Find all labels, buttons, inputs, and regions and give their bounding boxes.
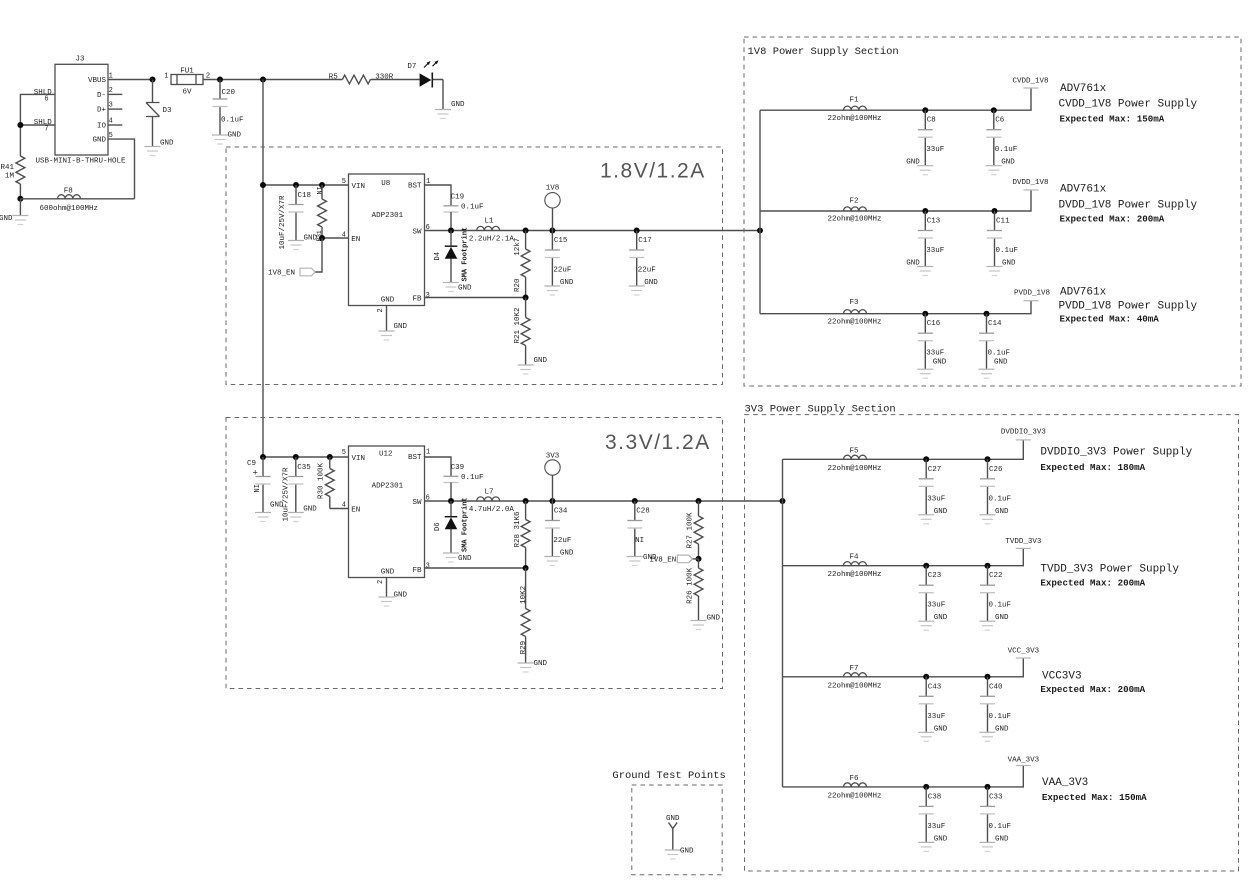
capacitor C19 <box>444 193 484 230</box>
svg-text:6V: 6V <box>182 89 192 97</box>
svg-text:3V3 Power Supply Section: 3V3 Power Supply Section <box>745 404 896 416</box>
svg-text:Expected Max: 200mA: Expected Max: 200mA <box>1040 684 1145 695</box>
svg-text:0.1uF: 0.1uF <box>461 204 484 212</box>
capacitor C20 <box>212 80 244 145</box>
wire VBUS pin1 <box>108 79 153 81</box>
svg-text:GND: GND <box>228 132 242 140</box>
wire main vertical <box>262 80 264 458</box>
svg-text:PVDD_1V8 Power Supply: PVDD_1V8 Power Supply <box>1059 300 1198 312</box>
svg-text:IO: IO <box>97 123 107 131</box>
wire 1V8 bus <box>759 110 761 314</box>
svg-text:GND: GND <box>995 835 1009 843</box>
svg-text:1.8V/1.2A: 1.8V/1.2A <box>600 160 706 183</box>
svg-text:GND: GND <box>451 101 465 109</box>
svg-text:4.7uH/2.0A: 4.7uH/2.0A <box>469 506 515 514</box>
net TVDD_3V3 <box>1005 538 1042 549</box>
svg-text:GND: GND <box>995 508 1009 516</box>
svg-text:GND: GND <box>0 215 13 223</box>
svg-text:GND: GND <box>394 323 408 331</box>
inductor F5 <box>827 447 881 473</box>
svg-text:3: 3 <box>426 292 430 300</box>
svg-text:GND: GND <box>534 660 548 668</box>
wire SW rail U12 <box>425 500 783 502</box>
svg-text:NI: NI <box>254 484 262 492</box>
wire SW rail <box>425 230 761 232</box>
capacitor C23 <box>918 566 948 631</box>
svg-text:10uF/25V/X7R: 10uF/25V/X7R <box>282 467 290 522</box>
node C22 <box>985 563 991 569</box>
node F8 left <box>17 196 23 202</box>
svg-text:L1: L1 <box>484 218 494 226</box>
node FB U12 <box>523 565 529 571</box>
node main vertical <box>260 77 266 83</box>
net 1V8 bubble <box>545 185 560 231</box>
svg-text:GND: GND <box>995 725 1009 733</box>
svg-text:33uF: 33uF <box>926 146 944 154</box>
svg-text:330R: 330R <box>375 74 394 82</box>
resistor R28 <box>514 501 530 568</box>
svg-text:GND: GND <box>458 285 472 293</box>
svg-text:2: 2 <box>377 580 385 584</box>
svg-text:10uF/25V/X7R: 10uF/25V/X7R <box>279 195 287 250</box>
svg-text:BST: BST <box>408 183 422 191</box>
svg-text:C9: C9 <box>247 460 256 468</box>
svg-text:33uF: 33uF <box>927 713 945 721</box>
svg-text:C26: C26 <box>989 466 1003 474</box>
svg-text:DVDDIO_3V3 Power Supply: DVDDIO_3V3 Power Supply <box>1040 447 1192 459</box>
svg-text:FU1: FU1 <box>180 68 194 76</box>
node bus entry 3V3 <box>780 498 786 504</box>
svg-text:CVDD_1V8: CVDD_1V8 <box>1012 78 1048 86</box>
svg-text:GND: GND <box>1002 260 1016 268</box>
inductor F8 <box>39 188 98 214</box>
svg-text:GND: GND <box>394 592 408 600</box>
op-amp U8 (regulator ADP2301) <box>342 174 430 313</box>
svg-text:ADV761x: ADV761x <box>1060 287 1107 299</box>
resistor R41 <box>0 156 24 184</box>
svg-text:Expected Max: 200mA: Expected Max: 200mA <box>1060 214 1165 225</box>
svg-text:C18: C18 <box>298 192 312 200</box>
node EN <box>319 235 325 241</box>
svg-text:ADP2301: ADP2301 <box>372 212 404 220</box>
svg-text:22ohm@100MHz: 22ohm@100MHz <box>827 216 881 224</box>
inductor F4 <box>827 554 881 580</box>
svg-text:22ohm@100MHz: 22ohm@100MHz <box>827 571 881 579</box>
wire VIN rail U8 <box>263 184 349 186</box>
node R28 <box>523 498 529 504</box>
node VBUS rail D3 <box>150 77 156 83</box>
wire row PVDD <box>760 301 1031 314</box>
svg-text:GND: GND <box>680 848 694 856</box>
svg-text:2.2uH/2.1A: 2.2uH/2.1A <box>469 235 515 243</box>
net DVDDIO_3V3 <box>1001 429 1047 440</box>
wire VIN rail U12 <box>263 456 349 458</box>
svg-text:0.1uF: 0.1uF <box>989 713 1012 721</box>
svg-text:ADV761x: ADV761x <box>1060 83 1107 95</box>
node SW C19 <box>448 228 454 234</box>
svg-text:C8: C8 <box>927 117 936 125</box>
node R27 <box>696 498 702 504</box>
svg-text:22uF: 22uF <box>638 267 656 275</box>
op-amp U12 (regulator ADP2301) <box>342 446 430 584</box>
capacitor C34 <box>544 501 574 566</box>
svg-text:R41: R41 <box>0 164 14 172</box>
node R30 <box>327 454 333 460</box>
test point GND <box>666 815 680 850</box>
svg-text:C13: C13 <box>927 218 941 226</box>
svg-text:C28: C28 <box>636 508 650 516</box>
svg-text:7: 7 <box>44 125 48 133</box>
net VAA_3V3 <box>1008 757 1040 766</box>
svg-text:U12: U12 <box>379 451 393 459</box>
wire row VAA <box>783 766 1024 787</box>
3.3V section box <box>226 418 723 689</box>
node R31 <box>319 182 325 188</box>
svg-text:C15: C15 <box>554 237 568 245</box>
svg-text:TVDD_3V3 Power Supply: TVDD_3V3 Power Supply <box>1040 564 1179 576</box>
svg-text:C22: C22 <box>989 572 1003 580</box>
node C16 <box>922 311 928 317</box>
svg-text:CVDD_1V8 Power Supply: CVDD_1V8 Power Supply <box>1059 99 1198 111</box>
ground left <box>0 199 28 225</box>
svg-text:0.1uF: 0.1uF <box>989 823 1012 831</box>
node C20 <box>217 77 223 83</box>
node FB <box>523 295 529 301</box>
wire LED to ground <box>442 80 444 110</box>
capacitor C17 <box>629 231 659 296</box>
svg-text:USB-MINI-B-THRU-HOLE: USB-MINI-B-THRU-HOLE <box>35 158 126 166</box>
svg-text:GND: GND <box>934 725 948 733</box>
svg-text:GND: GND <box>707 615 721 623</box>
svg-text:SHLD: SHLD <box>34 89 53 97</box>
svg-text:12k7: 12k7 <box>514 238 522 256</box>
inductor F3 <box>827 299 881 326</box>
svg-text:3: 3 <box>426 562 430 570</box>
svg-text:GND: GND <box>906 260 920 268</box>
svg-text:0.1uF: 0.1uF <box>988 350 1011 358</box>
svg-text:R20: R20 <box>514 278 522 292</box>
resistor R29 <box>520 568 530 663</box>
svg-text:C6: C6 <box>995 117 1005 125</box>
svg-text:GND: GND <box>381 568 395 576</box>
text DVDDIO block <box>1040 447 1192 474</box>
node C13 <box>922 208 928 214</box>
svg-text:R29: R29 <box>520 641 528 655</box>
wire row CVDD <box>760 88 1031 110</box>
svg-text:VAA_3V3: VAA_3V3 <box>1042 777 1088 789</box>
wire IO stub <box>108 124 122 126</box>
svg-text:22uF: 22uF <box>553 267 571 275</box>
svg-text:GND: GND <box>303 506 317 514</box>
node bus entry 1V8 <box>757 228 763 234</box>
svg-text:NI: NI <box>635 537 644 545</box>
svg-text:GND: GND <box>534 357 548 365</box>
svg-text:DVDD_1V8 Power Supply: DVDD_1V8 Power Supply <box>1059 200 1198 212</box>
wire SHLD7 <box>20 124 55 126</box>
node C14 <box>984 311 990 317</box>
ground U12 <box>379 578 408 607</box>
svg-text:22ohm@100MHz: 22ohm@100MHz <box>827 465 881 473</box>
svg-text:DVDD_1V8: DVDD_1V8 <box>1012 179 1048 187</box>
svg-text:D-: D- <box>97 92 106 100</box>
wire EN U12 <box>330 508 349 510</box>
capacitor C8 <box>906 110 944 175</box>
svg-text:C27: C27 <box>928 466 942 474</box>
svg-text:3V3: 3V3 <box>546 453 560 461</box>
ground D7 <box>435 101 465 119</box>
wire D- stub <box>108 93 122 95</box>
capacitor C28 NI <box>627 501 657 566</box>
svg-text:GND: GND <box>933 359 947 367</box>
net DVDD_1V8 <box>1012 179 1048 190</box>
svg-text:EN: EN <box>351 236 360 244</box>
capacitor C27 <box>918 459 948 524</box>
svg-text:Expected Max: 200mA: Expected Max: 200mA <box>1040 578 1145 589</box>
LED D7 <box>407 60 438 87</box>
diode D4 <box>434 227 472 293</box>
svg-text:1V8_EN: 1V8_EN <box>268 270 295 278</box>
svg-text:10K2: 10K2 <box>520 586 528 604</box>
svg-text:C11: C11 <box>996 218 1010 226</box>
text DVDD block <box>1059 184 1198 225</box>
wire BST <box>425 185 452 206</box>
svg-text:ADV761x: ADV761x <box>1060 184 1107 196</box>
svg-text:Ground Test Points: Ground Test Points <box>612 770 725 782</box>
capacitor C16 <box>917 314 947 379</box>
svg-text:22ohm@100MHz: 22ohm@100MHz <box>827 318 881 326</box>
wire FB U12 <box>425 567 526 569</box>
resistor R30 <box>318 457 335 509</box>
svg-text:4: 4 <box>342 502 346 510</box>
net CVDD_1V8 <box>1012 78 1048 89</box>
svg-text:C17: C17 <box>638 237 652 245</box>
svg-text:0.1uF: 0.1uF <box>996 247 1019 255</box>
node C18 <box>293 182 299 188</box>
svg-text:GND: GND <box>934 508 948 516</box>
svg-text:D6: D6 <box>434 523 442 531</box>
diode D3 <box>146 80 172 147</box>
resistor R31 NI <box>316 185 326 242</box>
wire row TVDD <box>783 548 1024 565</box>
svg-text:VIN: VIN <box>352 183 366 191</box>
svg-text:C38: C38 <box>928 793 942 801</box>
svg-text:1V8 Power Supply Section: 1V8 Power Supply Section <box>748 46 899 58</box>
node C6 <box>991 107 997 113</box>
node C28 <box>632 498 638 504</box>
wire row DVDD <box>760 190 1031 211</box>
node divider 1V8_EN <box>696 556 702 562</box>
svg-text:SHLD: SHLD <box>34 119 53 127</box>
node C43 <box>923 674 929 680</box>
svg-text:F6: F6 <box>849 775 859 783</box>
svg-text:SW: SW <box>412 229 422 237</box>
svg-text:C23: C23 <box>928 572 942 580</box>
svg-text:C39: C39 <box>451 464 465 472</box>
svg-text:DVDDIO_3V3: DVDDIO_3V3 <box>1001 429 1047 437</box>
svg-text:0.1uF: 0.1uF <box>461 474 484 482</box>
capacitor C14 <box>979 314 1011 379</box>
svg-text:F4: F4 <box>849 554 859 562</box>
resistor R20 <box>514 231 530 298</box>
svg-text:D4: D4 <box>434 252 442 260</box>
svg-text:33uF: 33uF <box>927 823 945 831</box>
svg-text:VIN: VIN <box>352 455 366 463</box>
svg-text:F8: F8 <box>64 188 73 196</box>
wire EN <box>322 237 349 239</box>
capacitor C6 <box>986 110 1018 175</box>
wire R41 to F8 rail <box>19 184 21 199</box>
capacitor C13 <box>906 211 944 276</box>
svg-text:D3: D3 <box>163 107 173 115</box>
capacitor C35 <box>282 457 317 522</box>
node C8 <box>922 107 928 113</box>
svg-text:R5: R5 <box>329 74 339 82</box>
svg-text:22ohm@100MHz: 22ohm@100MHz <box>827 682 881 690</box>
svg-text:33uF: 33uF <box>926 247 944 255</box>
svg-text:FB: FB <box>412 567 422 575</box>
capacitor C43 <box>918 677 948 742</box>
wire SHLD6 <box>20 94 55 156</box>
resistor R5 <box>329 74 394 84</box>
node 3V3 output <box>549 498 555 504</box>
text CVDD block <box>1059 83 1198 125</box>
svg-text:1V8: 1V8 <box>546 185 560 193</box>
resistor R21 <box>514 298 530 366</box>
svg-text:+: + <box>253 469 258 479</box>
svg-text:C43: C43 <box>928 683 942 691</box>
node SHLD <box>17 122 23 128</box>
svg-text:PVDD_1V8: PVDD_1V8 <box>1014 289 1050 297</box>
text VCC block <box>1040 670 1145 695</box>
svg-text:VBUS: VBUS <box>88 77 107 85</box>
svg-text:Expected Max: 180mA: Expected Max: 180mA <box>1040 462 1145 473</box>
svg-text:22ohm@100MHz: 22ohm@100MHz <box>827 792 881 800</box>
svg-text:J3: J3 <box>75 56 85 64</box>
svg-text:33uF: 33uF <box>927 495 945 503</box>
svg-text:33uF: 33uF <box>926 350 944 358</box>
wire F8 rail <box>20 198 134 200</box>
ground test points box <box>632 785 722 875</box>
node R20 <box>523 228 529 234</box>
wire row VCC <box>783 658 1024 677</box>
svg-text:F5: F5 <box>849 447 859 455</box>
wire D+ stub <box>108 108 122 110</box>
svg-text:F3: F3 <box>849 299 859 307</box>
inductor L1 <box>469 218 515 244</box>
svg-text:600ohm@100MHz: 600ohm@100MHz <box>39 205 98 213</box>
inductor F7 <box>827 665 881 691</box>
node C26 <box>985 456 991 462</box>
svg-text:0.1uF: 0.1uF <box>989 602 1012 610</box>
node C35 <box>293 454 299 460</box>
capacitor C33 <box>980 787 1012 852</box>
node C23 <box>923 563 929 569</box>
wire main rail <box>203 79 443 81</box>
node VIN vertical <box>260 182 266 188</box>
flag 1V8_EN output <box>649 555 698 564</box>
net 3V3 bubble <box>545 453 560 502</box>
flag 1V8_EN input <box>268 268 315 278</box>
node C17 <box>634 228 640 234</box>
svg-text:GND: GND <box>934 614 948 622</box>
svg-text:R28 31K6: R28 31K6 <box>514 511 522 548</box>
svg-text:GND: GND <box>560 279 574 287</box>
svg-text:GND: GND <box>906 159 920 167</box>
capacitor C11 <box>987 211 1019 276</box>
svg-text:GND: GND <box>644 279 658 287</box>
svg-text:GND: GND <box>92 137 106 145</box>
svg-text:GND: GND <box>995 614 1009 622</box>
node C38 <box>923 784 929 790</box>
ground test point <box>665 848 694 860</box>
wire row DVDDIO <box>783 440 1024 459</box>
svg-text:GND: GND <box>560 550 574 558</box>
ground D3 <box>145 140 175 156</box>
ground R29 <box>518 660 548 672</box>
svg-text:C33: C33 <box>989 793 1003 801</box>
svg-text:0.1uF: 0.1uF <box>221 117 244 125</box>
ground R21 <box>518 357 548 374</box>
net PVDD_1V8 <box>1014 289 1050 300</box>
capacitor C40 <box>980 677 1012 742</box>
svg-text:D7: D7 <box>407 63 416 71</box>
svg-text:FB: FB <box>412 295 422 303</box>
inductor F1 <box>827 97 881 123</box>
svg-text:33uF: 33uF <box>927 602 945 610</box>
capacitor C15 <box>544 231 574 296</box>
text VAA block <box>1042 777 1147 803</box>
svg-text:GND: GND <box>934 835 948 843</box>
svg-text:1M: 1M <box>5 172 15 180</box>
svg-text:4: 4 <box>342 232 346 240</box>
svg-text:Expected Max: 150mA: Expected Max: 150mA <box>1060 114 1165 125</box>
svg-text:GND: GND <box>994 359 1008 367</box>
svg-text:5: 5 <box>342 178 346 186</box>
svg-text:TVDD_3V3: TVDD_3V3 <box>1005 538 1042 546</box>
svg-text:GND: GND <box>381 296 395 304</box>
text TVDD block <box>1040 564 1179 589</box>
svg-text:D+: D+ <box>97 107 107 115</box>
svg-text:GND: GND <box>160 140 174 148</box>
node C11 <box>992 208 998 214</box>
svg-text:GND: GND <box>666 815 680 823</box>
svg-text:22uF: 22uF <box>553 537 571 545</box>
svg-text:5: 5 <box>342 449 346 457</box>
svg-text:GND: GND <box>458 555 472 563</box>
svg-text:C19: C19 <box>451 193 465 201</box>
svg-text:VAA_3V3: VAA_3V3 <box>1008 757 1040 765</box>
inductor F6 <box>827 775 881 801</box>
svg-text:SW: SW <box>412 499 422 507</box>
resistor R26 <box>687 559 703 620</box>
capacitor C38 <box>918 787 948 852</box>
svg-text:VCC_3V3: VCC_3V3 <box>1008 648 1040 656</box>
svg-text:1V8_EN: 1V8_EN <box>649 557 676 565</box>
svg-text:U8: U8 <box>381 180 390 188</box>
node C33 <box>985 784 991 790</box>
svg-text:F7: F7 <box>849 665 858 673</box>
svg-text:Expected Max: 150mA: Expected Max: 150mA <box>1042 792 1147 803</box>
capacitor C26 <box>980 459 1012 524</box>
capacitor C18 <box>279 185 318 250</box>
svg-text:22ohm@100MHz: 22ohm@100MHz <box>827 115 881 123</box>
node SW C39 <box>448 498 454 504</box>
capacitor C22 <box>980 566 1012 631</box>
svg-text:GND: GND <box>1001 159 1015 167</box>
wire BST U12 <box>425 457 452 476</box>
node C9 <box>260 454 266 460</box>
svg-text:C14: C14 <box>988 320 1002 328</box>
